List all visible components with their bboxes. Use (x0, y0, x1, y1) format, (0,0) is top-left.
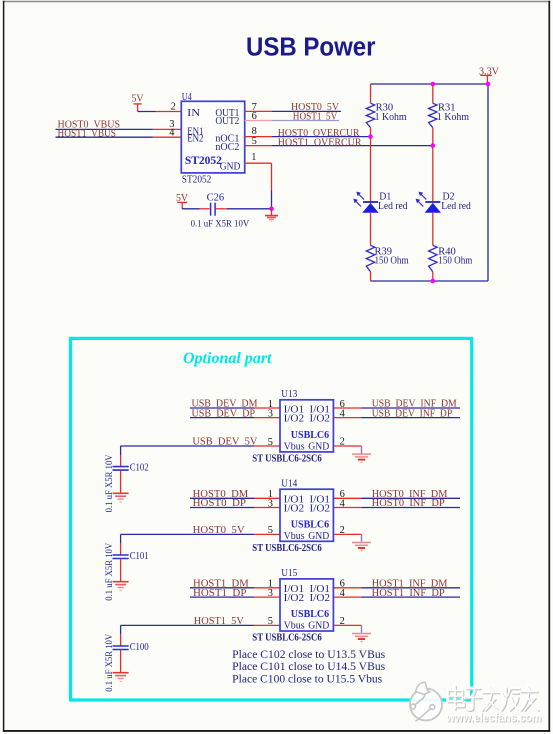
svg-text:2: 2 (340, 616, 345, 627)
svg-text:1 Kohm: 1 Kohm (375, 112, 407, 123)
svg-text:C26: C26 (207, 192, 225, 203)
svg-text:Vbus: Vbus (284, 531, 305, 542)
svg-text:ST USBLC6-2SC6: ST USBLC6-2SC6 (252, 543, 321, 554)
svg-text:U13: U13 (281, 389, 297, 400)
svg-text:U14: U14 (281, 478, 298, 489)
svg-text:GND: GND (308, 531, 329, 542)
svg-text:Place C101 close to U14.5 VBus: Place C101 close to U14.5 VBus (232, 661, 386, 673)
svg-text:2: 2 (171, 101, 176, 112)
svg-text:4: 4 (169, 127, 175, 138)
svg-text:5: 5 (268, 616, 273, 627)
svg-text:C101: C101 (130, 551, 149, 562)
svg-text:C100: C100 (130, 642, 149, 653)
svg-text:Led red: Led red (378, 201, 408, 212)
svg-text:5: 5 (268, 525, 273, 536)
svg-text:IN: IN (187, 108, 201, 119)
svg-text:C102: C102 (130, 463, 149, 474)
svg-text:HOST0 INF DP: HOST0 INF DP (372, 498, 445, 509)
svg-text:I/O2: I/O2 (284, 414, 305, 425)
svg-text:1: 1 (251, 152, 256, 163)
svg-text:HOST0 5V: HOST0 5V (193, 525, 246, 536)
svg-text:USB DEV DP: USB DEV DP (192, 408, 256, 419)
svg-text:150 Ohm: 150 Ohm (438, 255, 472, 266)
svg-text:ST USBLC6-2SC6: ST USBLC6-2SC6 (252, 453, 321, 464)
svg-text:I/O2: I/O2 (310, 593, 331, 604)
svg-text:Vbus: Vbus (284, 441, 305, 452)
svg-text:5V: 5V (132, 93, 144, 104)
svg-text:3: 3 (268, 409, 273, 420)
svg-text:U15: U15 (281, 568, 297, 579)
svg-text:HOST1 5V: HOST1 5V (293, 111, 338, 122)
svg-text:4: 4 (340, 499, 346, 510)
svg-text:5: 5 (268, 437, 273, 448)
svg-text:HOST0 DP: HOST0 DP (193, 498, 247, 509)
svg-text:HOST1 5V: HOST1 5V (194, 616, 244, 627)
svg-text:HOST1 OVERCUR: HOST1 OVERCUR (278, 137, 362, 148)
svg-text:USBLC6: USBLC6 (291, 609, 329, 620)
svg-text:I/O2: I/O2 (310, 504, 331, 515)
svg-text:4: 4 (340, 409, 346, 420)
svg-text:0.1 uF X5R 10V: 0.1 uF X5R 10V (191, 218, 250, 228)
svg-text:Led red: Led red (441, 201, 471, 212)
svg-text:2: 2 (340, 437, 345, 448)
svg-text:USB Power: USB Power (246, 31, 376, 61)
svg-text:6: 6 (252, 111, 257, 122)
svg-text:USB DEV 5V: USB DEV 5V (192, 437, 257, 448)
svg-text:I/O2: I/O2 (310, 414, 331, 425)
svg-text:U4: U4 (182, 92, 193, 103)
svg-text:nOC2: nOC2 (215, 142, 239, 153)
svg-text:3: 3 (268, 499, 273, 510)
svg-text:0.1 uF X5R 10V: 0.1 uF X5R 10V (104, 454, 114, 512)
svg-text:HOST1 VBUS: HOST1 VBUS (58, 128, 117, 139)
svg-text:I/O2: I/O2 (284, 593, 305, 604)
svg-text:I/O2: I/O2 (284, 504, 305, 515)
svg-text:GND: GND (308, 621, 329, 632)
svg-text:HOST1 DP: HOST1 DP (193, 588, 247, 599)
svg-text:EN2: EN2 (187, 134, 203, 145)
svg-text:GND: GND (308, 441, 329, 452)
svg-text:Place C100 close to U15.5 Vbus: Place C100 close to U15.5 Vbus (232, 673, 383, 685)
svg-text:150 Ohm: 150 Ohm (375, 255, 409, 266)
svg-text:Place C102 close to U13.5 VBus: Place C102 close to U13.5 VBus (232, 649, 386, 661)
svg-text:USBLC6: USBLC6 (291, 430, 329, 441)
svg-text:3: 3 (268, 588, 273, 599)
svg-text:USB DEV INF DP: USB DEV INF DP (372, 408, 453, 419)
svg-text:2: 2 (340, 525, 345, 536)
svg-text:1 Kohm: 1 Kohm (437, 112, 469, 123)
svg-text:HOST1 INF DP: HOST1 INF DP (372, 588, 445, 599)
svg-text:0.1 uF X5R 10V: 0.1 uF X5R 10V (104, 633, 114, 691)
svg-text:www.elecfans.com: www.elecfans.com (446, 713, 542, 725)
svg-text:ST2052: ST2052 (185, 155, 222, 167)
svg-text:0.1 uF X5R 10V: 0.1 uF X5R 10V (104, 542, 114, 600)
svg-text:4: 4 (340, 588, 346, 599)
svg-text:OUT2: OUT2 (215, 116, 239, 127)
svg-text:ST2052: ST2052 (182, 175, 212, 186)
svg-text:ST USBLC6-2SC6: ST USBLC6-2SC6 (252, 633, 321, 644)
svg-text:USBLC6: USBLC6 (291, 519, 329, 530)
svg-text:GND: GND (220, 161, 241, 172)
svg-text:Vbus: Vbus (284, 621, 305, 632)
svg-text:Optional part: Optional part (183, 350, 272, 367)
svg-text:5: 5 (252, 136, 257, 147)
